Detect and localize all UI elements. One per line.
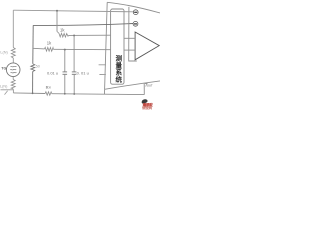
svg-text:1k: 1k [47,41,52,46]
svg-text:L(N): L(N) [0,50,8,54]
svg-text:L(N): L(N) [0,84,8,88]
svg-text:0. 01 u: 0. 01 u [77,70,89,75]
svg-text:系: 系 [115,67,122,76]
svg-text:OUT: OUT [147,83,153,87]
svg-text:统: 统 [115,74,122,83]
svg-text:R×: R× [46,85,52,90]
svg-text:测: 测 [115,53,122,62]
svg-text:TG: TG [1,67,6,71]
svg-text:50: 50 [36,64,40,68]
svg-text:烧友网: 烧友网 [142,105,153,110]
svg-text:1k: 1k [60,27,65,32]
svg-text:量: 量 [115,60,122,69]
svg-text:0.01 u: 0.01 u [47,71,58,76]
